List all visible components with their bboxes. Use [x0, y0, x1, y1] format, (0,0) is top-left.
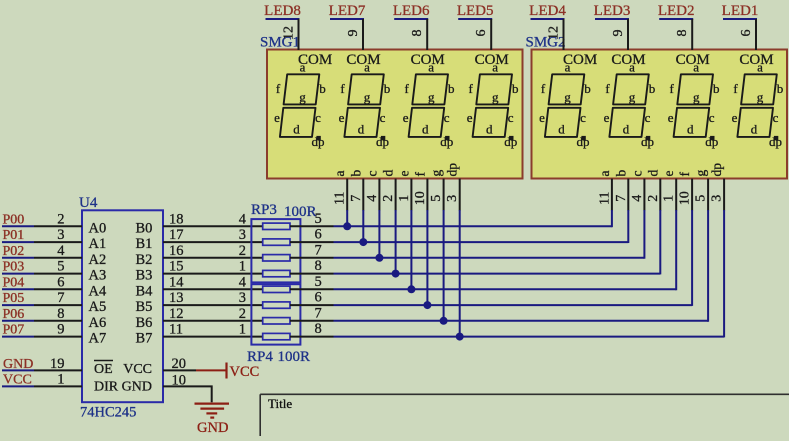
svg-text:A2: A2 — [89, 252, 107, 268]
display SMG2 — [532, 50, 788, 179]
wire GND to U4 pin 19 — [34, 369, 82, 371]
net label P04 — [2, 275, 34, 290]
svg-text:dp: dp — [376, 134, 389, 149]
svg-text:e: e — [732, 110, 738, 125]
svg-text:f: f — [340, 81, 345, 96]
wire SMG2 c pin drop — [643, 210, 645, 259]
resistor network RP3 body — [251, 219, 300, 282]
wire SMG2 f pin drop — [691, 210, 693, 306]
wire net b: RP output to SMG2 pin — [334, 241, 629, 243]
svg-text:8: 8 — [315, 321, 322, 337]
svg-text:18: 18 — [169, 211, 184, 227]
svg-text:12: 12 — [169, 306, 184, 322]
wire U4 pin 13 to RP pin 3 — [163, 304, 263, 306]
svg-text:5: 5 — [429, 195, 444, 202]
svg-text:LED2: LED2 — [658, 3, 695, 19]
svg-text:P02: P02 — [3, 244, 25, 259]
resistor RP4 element 1 — [263, 286, 290, 292]
pin number 5 — [315, 274, 322, 290]
pin name B7 — [136, 331, 153, 347]
pin number 9 — [57, 322, 64, 338]
svg-text:P05: P05 — [3, 291, 25, 306]
pin name B1 — [136, 236, 153, 252]
junction node dp — [456, 333, 464, 341]
title block — [260, 394, 789, 436]
pin number 8 — [315, 258, 322, 274]
svg-text:5: 5 — [57, 259, 64, 275]
wire LED5 to COM pin — [490, 19, 492, 50]
pin number 2 — [239, 243, 246, 259]
svg-text:LED1: LED1 — [722, 3, 759, 19]
7-seg digit 4 of SMG2 (COM label + segments) — [732, 52, 784, 149]
svg-text:OE: OE — [94, 362, 113, 377]
pin number 12 — [169, 306, 184, 322]
svg-text:3: 3 — [57, 227, 64, 243]
pin number 9 (COM) — [611, 30, 626, 37]
wire SMG1 b pin drop — [362, 210, 364, 242]
svg-text:c: c — [380, 110, 386, 125]
pin name B4 — [136, 283, 154, 299]
svg-text:d: d — [687, 121, 694, 136]
7-seg digit 2 of SMG1 (COM label + segments) — [339, 52, 391, 149]
pin number 4 — [239, 211, 247, 227]
svg-text:100R: 100R — [278, 349, 311, 365]
wire RP3 output (black pin stub) — [290, 273, 334, 275]
SMG1 segment pin g (pin 5) — [429, 170, 445, 211]
pin number 19 — [50, 356, 65, 372]
wire P07 to U4 pin 9 — [34, 336, 82, 338]
svg-text:12: 12 — [547, 26, 562, 40]
net label LED7 — [329, 3, 366, 19]
svg-text:d: d — [558, 121, 565, 136]
svg-text:f: f — [405, 81, 410, 96]
svg-text:A1: A1 — [89, 236, 107, 252]
svg-text:P00: P00 — [3, 212, 25, 227]
pin number 3 — [239, 290, 246, 306]
pin number 2 — [239, 306, 246, 322]
svg-text:2: 2 — [57, 211, 64, 227]
svg-text:14: 14 — [169, 274, 184, 290]
ground symbol GND — [195, 404, 230, 436]
svg-text:f: f — [733, 81, 738, 96]
pin name A4 — [89, 283, 107, 299]
svg-text:A0: A0 — [89, 220, 107, 236]
svg-text:f: f — [276, 81, 281, 96]
svg-text:dp: dp — [769, 134, 782, 149]
pin number 7 — [315, 242, 322, 258]
svg-text:dp: dp — [312, 134, 325, 149]
junction node g — [440, 317, 448, 325]
wire P04 to U4 pin 6 — [34, 288, 82, 290]
pin name B5 — [136, 299, 153, 315]
svg-text:11: 11 — [333, 192, 348, 205]
svg-text:100R: 100R — [284, 204, 317, 220]
svg-text:4: 4 — [239, 274, 247, 290]
label SMG2 — [526, 35, 566, 51]
pin name A2 — [89, 252, 107, 268]
svg-text:a: a — [300, 60, 306, 75]
pin number 1 — [239, 322, 246, 338]
svg-text:B2: B2 — [136, 252, 153, 268]
pin number 15 — [169, 259, 184, 275]
wire P00 to U4 pin 2 — [34, 225, 82, 227]
pin number 16 — [169, 243, 184, 259]
designator RP3 + value 100R — [251, 202, 317, 220]
svg-text:B0: B0 — [136, 220, 153, 236]
svg-text:8: 8 — [410, 30, 425, 37]
svg-text:g: g — [693, 90, 700, 105]
wire LED6 to COM pin — [426, 19, 428, 50]
junction node b — [359, 238, 367, 246]
svg-text:B6: B6 — [136, 315, 153, 331]
pin number 1 — [239, 259, 246, 275]
svg-text:2: 2 — [239, 243, 246, 259]
net label VCC (left) — [2, 373, 34, 388]
pin number 6 (COM) — [474, 30, 489, 37]
svg-text:11: 11 — [169, 322, 183, 338]
svg-text:8: 8 — [315, 258, 322, 274]
svg-text:7: 7 — [57, 290, 64, 306]
net label P01 — [2, 228, 34, 243]
resistor RP4 element 4 — [263, 333, 290, 339]
svg-text:U4: U4 — [79, 195, 98, 211]
svg-text:b: b — [713, 81, 720, 96]
7-seg digit 4 of SMG1 (COM label + segments) — [467, 52, 519, 149]
svg-text:10: 10 — [678, 191, 693, 205]
svg-text:17: 17 — [169, 227, 184, 243]
wire LED3 to COM pin — [627, 19, 629, 50]
svg-text:a: a — [364, 60, 370, 75]
svg-text:1: 1 — [57, 372, 64, 388]
wire RP4 output (black pin stub) — [290, 288, 334, 290]
svg-text:2: 2 — [381, 195, 396, 202]
pin name DIR — [94, 380, 119, 395]
svg-text:A6: A6 — [89, 315, 107, 331]
label SMG1 — [260, 35, 300, 51]
svg-text:c: c — [773, 110, 779, 125]
wire RP4 output (black pin stub) — [290, 320, 334, 322]
net label LED6 — [393, 3, 430, 19]
pin number 20 — [172, 356, 187, 372]
svg-text:b: b — [319, 81, 326, 96]
svg-text:b: b — [613, 170, 628, 177]
svg-text:c: c — [315, 110, 321, 125]
svg-text:dp: dp — [705, 134, 718, 149]
op IC U4 74HC245 body — [82, 210, 163, 402]
wire LED8 to COM pin — [298, 19, 300, 50]
resistor RP4 element 3 — [263, 318, 290, 324]
pin number 6 — [315, 290, 322, 306]
wire RP3 output (black pin stub) — [290, 225, 334, 227]
net label LED8 — [264, 3, 301, 19]
svg-text:B3: B3 — [136, 268, 153, 284]
svg-text:VCC: VCC — [230, 364, 260, 380]
svg-text:f: f — [412, 172, 427, 177]
wire P05 to U4 pin 7 — [34, 304, 82, 306]
SMG2 segment pin dp (pin 3) — [709, 163, 725, 211]
resistor RP3 element 1 — [263, 223, 290, 229]
net label GND (left) — [2, 357, 34, 372]
svg-text:f: f — [541, 81, 546, 96]
svg-text:5: 5 — [315, 274, 322, 290]
wire RP3 output (black pin stub) — [290, 257, 334, 259]
svg-text:7: 7 — [315, 305, 322, 321]
svg-text:g: g — [757, 90, 764, 105]
wire SMG1 d pin drop — [395, 210, 397, 274]
net label LED4 — [529, 3, 566, 19]
svg-text:GND: GND — [197, 420, 228, 436]
svg-text:d: d — [751, 121, 758, 136]
svg-text:74HC245: 74HC245 — [80, 405, 136, 421]
svg-text:g: g — [364, 90, 371, 105]
svg-text:3: 3 — [445, 195, 460, 202]
svg-text:b: b — [512, 81, 519, 96]
svg-text:P04: P04 — [3, 275, 25, 290]
SMG1 segment pin b (pin 7) — [348, 170, 364, 211]
svg-text:3: 3 — [239, 290, 246, 306]
net label LED2 — [658, 3, 695, 19]
svg-text:a: a — [428, 60, 434, 75]
pin number 9 (COM) — [346, 30, 361, 37]
svg-text:dp: dp — [440, 134, 453, 149]
designator RP4 + value 100R — [247, 349, 310, 365]
svg-text:c: c — [508, 110, 514, 125]
SMG1 segment pin dp (pin 3) — [445, 163, 461, 211]
svg-text:15: 15 — [169, 259, 184, 275]
svg-text:e: e — [396, 171, 411, 177]
svg-text:d: d — [358, 121, 365, 136]
svg-text:a: a — [565, 60, 571, 75]
designator U4 — [79, 195, 98, 211]
svg-text:A3: A3 — [89, 268, 107, 284]
SMG1 segment pin c (pin 4) — [364, 171, 380, 211]
svg-text:6: 6 — [315, 227, 322, 243]
pin number 7 — [57, 290, 64, 306]
svg-text:A5: A5 — [89, 299, 107, 315]
7-seg digit 3 of SMG1 (COM label + segments) — [403, 52, 455, 149]
pin number 13 — [169, 290, 184, 306]
SMG1 segment pin d (pin 2) — [381, 170, 397, 211]
net label P07 — [2, 323, 34, 338]
wire U4 pin 18 to RP pin 4 — [163, 225, 263, 227]
pin name OE (active low) — [94, 361, 113, 378]
pin number 6 (COM) — [739, 30, 754, 37]
svg-text:P03: P03 — [3, 260, 25, 275]
wire net a: RP output to SMG2 pin — [334, 225, 612, 227]
junction node a — [343, 222, 351, 230]
pin number 14 — [169, 274, 184, 290]
pin name B0 — [136, 220, 153, 236]
svg-text:a: a — [492, 60, 498, 75]
svg-text:8: 8 — [675, 30, 690, 37]
svg-text:b: b — [348, 170, 363, 177]
SMG2 segment pin g (pin 5) — [693, 170, 709, 211]
pin number 8 (COM) — [410, 30, 425, 37]
resistor RP3 element 2 — [263, 239, 290, 245]
svg-text:a: a — [597, 171, 612, 177]
junction node d — [392, 270, 400, 278]
junction node e — [407, 285, 415, 293]
wire U4 pin 14 to RP pin 4 — [163, 288, 263, 290]
svg-text:e: e — [668, 110, 674, 125]
resistor RP4 element 2 — [263, 302, 290, 308]
wire LED7 to COM pin — [362, 19, 364, 50]
wire VCC to U4 pin 1 — [34, 385, 82, 387]
svg-text:d: d — [381, 170, 396, 177]
wire U4 pin 16 to RP pin 2 — [163, 257, 263, 259]
svg-text:2: 2 — [646, 195, 661, 202]
wire P06 to U4 pin 8 — [34, 320, 82, 322]
7-seg digit 1 of SMG2 (COM label + segments) — [539, 52, 597, 149]
svg-text:c: c — [364, 171, 379, 177]
svg-text:11: 11 — [597, 192, 612, 205]
part value 74HC245 — [80, 405, 136, 421]
svg-text:LED4: LED4 — [529, 3, 566, 19]
svg-text:b: b — [448, 81, 455, 96]
svg-text:g: g — [428, 90, 435, 105]
junction node f — [423, 301, 431, 309]
svg-text:6: 6 — [474, 30, 489, 37]
svg-text:VCC: VCC — [123, 362, 152, 377]
svg-text:5: 5 — [315, 211, 322, 227]
svg-text:f: f — [670, 81, 675, 96]
svg-text:d: d — [422, 121, 429, 136]
wire net d: RP output to SMG2 pin — [334, 273, 661, 275]
svg-text:4: 4 — [57, 243, 65, 259]
wire SMG2 a pin drop — [611, 210, 613, 227]
pin name A7 — [89, 331, 107, 347]
wire P01 to U4 pin 3 — [34, 241, 82, 243]
svg-text:g: g — [492, 90, 499, 105]
SMG2 segment pin c (pin 4) — [629, 171, 645, 211]
svg-text:g: g — [429, 170, 444, 177]
pin number 8 — [315, 321, 322, 337]
svg-text:4: 4 — [630, 195, 645, 202]
wire LED4 to COM pin — [563, 19, 565, 50]
wire SMG1 g pin drop — [443, 210, 445, 321]
svg-text:d: d — [486, 121, 493, 136]
svg-text:DIR: DIR — [94, 380, 119, 395]
svg-text:6: 6 — [739, 30, 754, 37]
SMG2 segment pin f (pin 10) — [677, 172, 693, 211]
svg-text:LED7: LED7 — [329, 3, 366, 19]
pin name A5 — [89, 299, 107, 315]
svg-text:a: a — [693, 60, 699, 75]
svg-text:1: 1 — [239, 322, 246, 338]
svg-text:b: b — [777, 81, 784, 96]
svg-text:c: c — [645, 110, 651, 125]
svg-text:b: b — [584, 81, 591, 96]
svg-text:c: c — [444, 110, 450, 125]
wire net f: RP output to SMG2 pin — [334, 304, 693, 306]
pin name B6 — [136, 315, 153, 331]
svg-text:d: d — [293, 121, 300, 136]
svg-text:b: b — [649, 81, 656, 96]
SMG2 segment pin b (pin 7) — [613, 170, 629, 211]
svg-text:B4: B4 — [136, 283, 154, 299]
wire U4 pin 20 to VCC — [163, 369, 196, 371]
net label P06 — [2, 307, 34, 322]
wire LED1 to COM pin — [755, 19, 757, 50]
SMG2 segment pin e (pin 1) — [661, 171, 677, 211]
pin number 1 — [57, 372, 64, 388]
svg-text:VCC: VCC — [3, 373, 32, 388]
wire U4 pin 15 to RP pin 1 — [163, 273, 263, 275]
svg-text:g: g — [564, 90, 571, 105]
svg-text:8: 8 — [57, 306, 64, 322]
pin name VCC — [123, 362, 152, 377]
wire SMG2 d pin drop — [659, 210, 661, 274]
pin number 5 — [315, 211, 322, 227]
wire net e: RP output to SMG2 pin — [334, 288, 677, 290]
pin number 4 — [239, 274, 247, 290]
svg-text:b: b — [384, 81, 391, 96]
net label LED5 — [457, 3, 494, 19]
svg-text:g: g — [629, 90, 636, 105]
net label P02 — [2, 244, 34, 259]
svg-text:a: a — [757, 60, 763, 75]
svg-text:LED5: LED5 — [457, 3, 494, 19]
wire net c: RP output to SMG2 pin — [334, 257, 645, 259]
svg-text:1: 1 — [239, 259, 246, 275]
wire SMG1 a pin drop — [346, 210, 348, 226]
SMG1 segment pin e (pin 1) — [396, 171, 412, 211]
wire SMG2 dp pin drop — [723, 210, 725, 337]
pin name B3 — [136, 268, 153, 284]
wire U4 pin 17 to RP pin 3 — [163, 241, 263, 243]
wire net dp: RP output to SMG2 pin — [334, 336, 725, 338]
wire RP4 output (black pin stub) — [290, 304, 334, 306]
wire SMG2 g pin drop — [707, 210, 709, 322]
svg-text:6: 6 — [315, 290, 322, 306]
svg-text:f: f — [605, 81, 610, 96]
wire SMG1 f pin drop — [426, 210, 428, 305]
svg-text:A7: A7 — [89, 331, 107, 347]
svg-text:6: 6 — [57, 274, 64, 290]
svg-text:dp: dp — [504, 134, 517, 149]
wire U4 pin 12 to RP pin 2 — [163, 320, 263, 322]
pin number 5 — [57, 259, 64, 275]
wire RP4 output (black pin stub) — [290, 336, 334, 338]
wire U4 pin 11 to RP pin 1 — [163, 336, 263, 338]
svg-text:dp: dp — [577, 134, 590, 149]
svg-text:g: g — [299, 90, 306, 105]
net label P03 — [2, 260, 34, 275]
svg-text:e: e — [467, 110, 473, 125]
pin name A1 — [89, 236, 107, 252]
svg-text:c: c — [580, 110, 586, 125]
svg-text:B5: B5 — [136, 299, 153, 315]
pin name A3 — [89, 268, 107, 284]
pin number 2 — [57, 211, 64, 227]
svg-text:7: 7 — [349, 195, 364, 202]
SMG2 segment pin d (pin 2) — [645, 170, 661, 211]
wire net g: RP output to SMG2 pin — [334, 320, 709, 322]
pin name A6 — [89, 315, 107, 331]
net label P05 — [2, 291, 34, 306]
svg-text:1: 1 — [397, 195, 412, 202]
7-seg digit 3 of SMG2 (COM label + segments) — [668, 52, 720, 149]
SMG1 segment pin a (pin 11) — [332, 171, 348, 211]
svg-text:9: 9 — [346, 30, 361, 37]
pin number 7 — [315, 305, 322, 321]
wire SMG1 dp pin drop — [459, 210, 461, 337]
svg-text:4: 4 — [365, 195, 380, 202]
svg-text:a: a — [629, 60, 635, 75]
svg-text:c: c — [629, 171, 644, 177]
svg-text:c: c — [709, 110, 715, 125]
svg-text:LED3: LED3 — [594, 3, 631, 19]
